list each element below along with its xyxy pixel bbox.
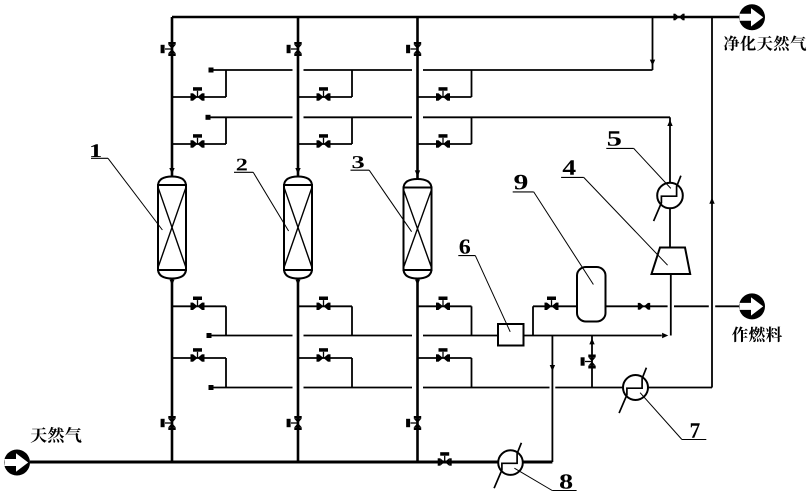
label 6 <box>475 256 510 332</box>
valve row 1 col 3 <box>436 87 450 101</box>
arrow down into adsorber 1 <box>169 168 174 174</box>
arrow down below adsorber 3 <box>415 280 420 286</box>
label 5 <box>634 148 671 188</box>
downcomer below adsorber 2 <box>297 279 300 463</box>
valve row 2 col 3 <box>436 134 450 148</box>
main product line (top) <box>172 16 739 19</box>
branch row 1 col 1 <box>172 96 226 98</box>
riser above adsorber 2 <box>297 17 300 179</box>
branch row 4 col 3 <box>418 357 472 359</box>
valve row 2 col 1 <box>191 134 205 148</box>
branch row 2 col 2 <box>298 143 352 145</box>
valve row 3 col 1 <box>191 297 205 311</box>
label 2 <box>253 172 288 231</box>
valve row 1 col 2 <box>317 87 331 101</box>
arrow up to header 3 <box>589 338 594 344</box>
arrow down below adsorber 2 <box>296 280 301 286</box>
heater 8 <box>494 443 523 488</box>
header 3 <box>207 333 212 338</box>
branch row 3 col 2 <box>298 305 352 307</box>
feed line (bottom) <box>30 461 552 464</box>
heater 7 <box>619 368 648 413</box>
bottom riser valve 2 <box>287 416 302 430</box>
arrow down into header 1 <box>650 60 655 66</box>
adsorber column 2 <box>284 177 312 279</box>
valve row 1 col 1 <box>191 87 205 101</box>
filter 6 <box>498 324 524 346</box>
adsorber column 3 <box>404 179 432 279</box>
feed valve <box>438 452 452 466</box>
header 2 <box>206 115 211 120</box>
valve on fuel line (left, with stem) <box>545 297 559 311</box>
compressor 4 (trapezoid) <box>652 248 691 275</box>
purified gas outlet symbol <box>739 4 765 30</box>
valve row 3 col 3 <box>436 297 450 311</box>
header 1 <box>209 68 214 73</box>
label 3 <box>369 170 411 232</box>
top riser valve 1 <box>161 42 176 56</box>
arrow down into adsorber 3 <box>415 170 420 176</box>
header 2 corner down to cooler <box>669 117 671 183</box>
drain line x=592 with valve <box>591 336 593 388</box>
pipe compressor to cooler <box>669 208 671 247</box>
purge riser x=552 (to heater 8) <box>551 336 553 463</box>
downcomer below adsorber 3 <box>416 279 419 463</box>
repressurization drop line x=652 <box>652 17 654 70</box>
header 4 <box>209 385 214 390</box>
label 4 <box>584 177 668 265</box>
label: natural gas <box>31 427 82 443</box>
valve row 4 col 1 <box>191 348 205 362</box>
valve row 4 col 2 <box>317 348 331 362</box>
branch row 4 col 2 <box>298 357 352 359</box>
valve row 4 col 3 <box>436 348 450 362</box>
label: as fuel <box>732 326 782 342</box>
valve on fuel line (right) <box>638 303 650 310</box>
label 8 <box>514 468 552 490</box>
top riser valve 3 <box>406 42 421 56</box>
branch row 3 col 1 <box>172 305 226 307</box>
arrow down into adsorber 2 <box>295 168 300 174</box>
branch row 1 col 3 <box>418 96 472 98</box>
valve on product line <box>673 14 684 21</box>
arrow down below adsorber 1 <box>170 280 175 286</box>
arrow down on purge riser <box>550 365 555 371</box>
branch row 4 col 1 <box>172 357 226 359</box>
valve on x=592 <box>581 355 596 369</box>
arrow into compressor suction <box>662 333 668 338</box>
riser above adsorber 3 <box>416 17 419 181</box>
adsorber column 1 <box>158 177 186 279</box>
label 1 <box>108 158 162 230</box>
arrow up on recycle riser <box>709 198 714 204</box>
buffer vessel 9 <box>577 267 606 322</box>
top riser valve 2 <box>287 42 302 56</box>
valve row 2 col 2 <box>317 134 331 148</box>
fuel outlet symbol <box>739 293 765 319</box>
bottom riser valve 1 <box>161 416 176 430</box>
branch row 1 col 2 <box>298 96 352 98</box>
natural gas inlet symbol <box>4 450 30 476</box>
branch row 2 col 1 <box>172 143 226 145</box>
downcomer below adsorber 1 <box>171 279 174 463</box>
label 9 <box>534 192 594 285</box>
bottom riser valve 3 <box>406 416 421 430</box>
label: purified natural gas <box>724 35 806 50</box>
branch row 2 col 3 <box>418 143 472 145</box>
fuel gas line <box>533 305 668 307</box>
valve row 3 col 2 <box>317 297 331 311</box>
recycle riser x=712 <box>711 17 713 388</box>
cooler 5 <box>654 176 683 221</box>
compressor feed pipe <box>670 274 672 336</box>
riser above adsorber 1 <box>171 17 174 179</box>
label 7 <box>640 393 682 440</box>
fuel line riser x=533 <box>532 306 534 335</box>
branch row 3 col 3 <box>418 305 472 307</box>
arrow up below header 2 corner <box>667 120 672 126</box>
